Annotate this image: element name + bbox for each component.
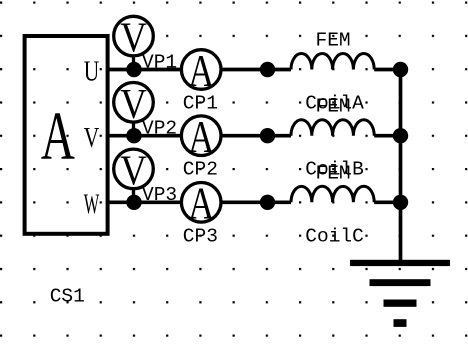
svg-text:A: A <box>188 46 214 96</box>
svg-text:CoilC: CoilC <box>305 225 364 247</box>
svg-text:CS1: CS1 <box>50 286 85 308</box>
svg-text:CP2: CP2 <box>183 159 218 181</box>
svg-text:FEM: FEM <box>316 96 351 118</box>
svg-text:A: A <box>188 179 214 229</box>
svg-text:CP3: CP3 <box>183 225 218 247</box>
svg-text:FEM: FEM <box>316 30 351 52</box>
svg-text:V: V <box>84 123 100 154</box>
svg-text:VP1: VP1 <box>142 51 177 73</box>
svg-text:W: W <box>84 189 100 220</box>
svg-text:VP3: VP3 <box>142 184 177 206</box>
svg-text:U: U <box>84 57 100 88</box>
svg-text:VP2: VP2 <box>142 118 177 140</box>
svg-text:FEM: FEM <box>316 162 351 184</box>
svg-text:A: A <box>41 97 75 173</box>
svg-text:A: A <box>188 112 214 162</box>
